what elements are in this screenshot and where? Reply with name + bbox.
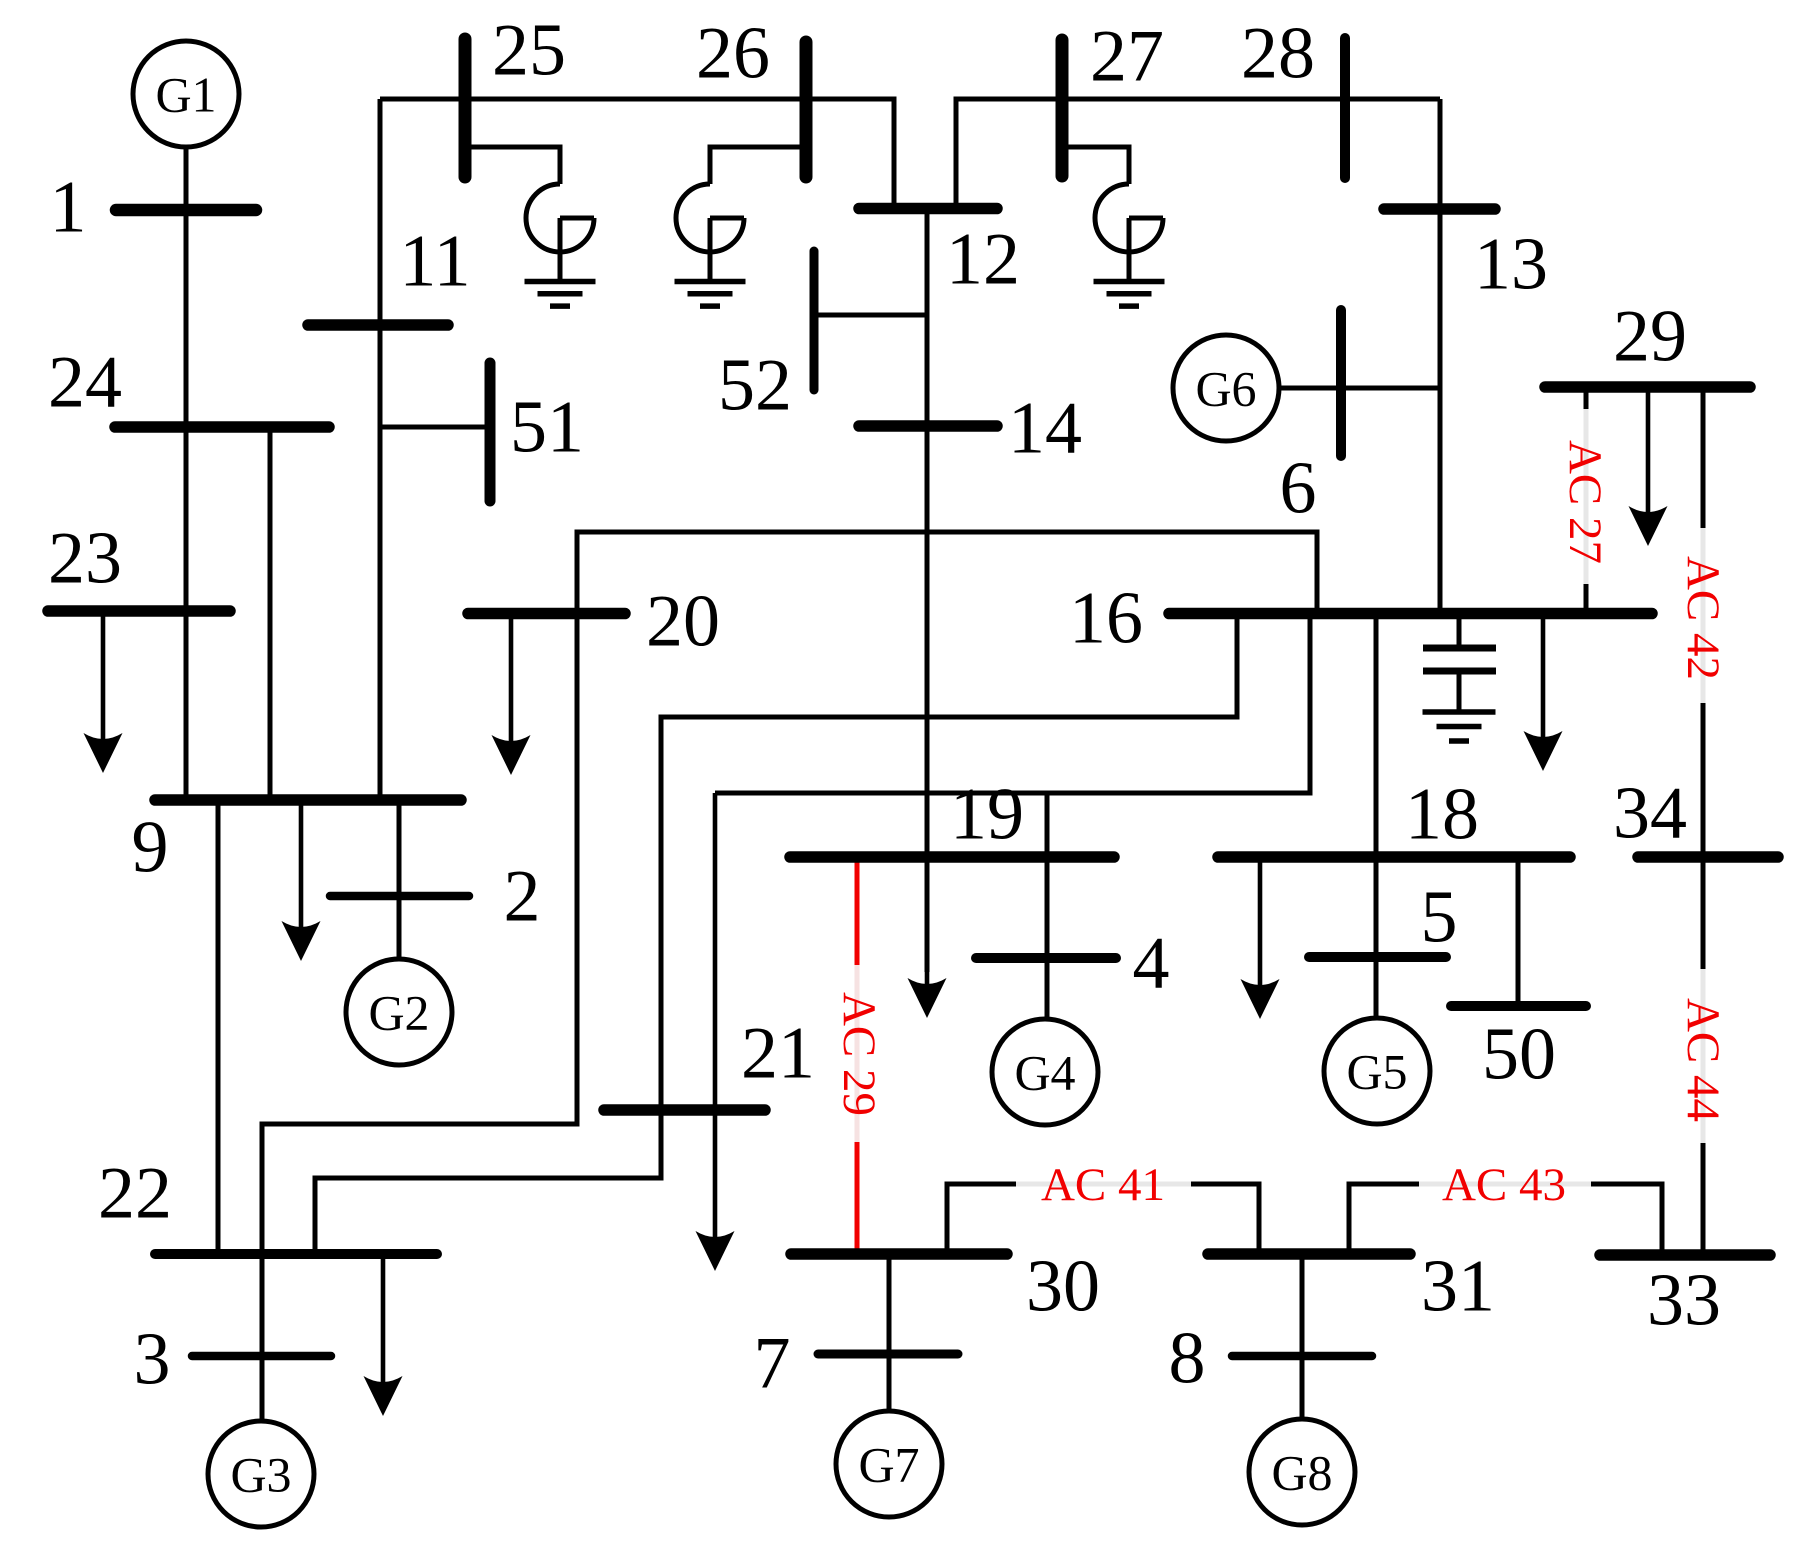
svg-text:18: 18: [1405, 774, 1479, 856]
bus 6 bar: [1336, 310, 1346, 456]
bus 25 bar: [459, 39, 472, 177]
bus 34 bar: [1638, 851, 1778, 863]
svg-text:24: 24: [48, 342, 122, 424]
generator G8: [1249, 1419, 1355, 1525]
svg-text:1: 1: [50, 167, 87, 249]
wire top run 27-28: [956, 99, 1440, 208]
svg-text:23: 23: [48, 518, 122, 600]
bus 14 bar: [859, 420, 997, 432]
ground of reactor L3: [1094, 279, 1165, 285]
svg-text:21: 21: [741, 1013, 815, 1095]
bus 51 bar: [485, 363, 496, 501]
generator G7: [836, 1411, 942, 1517]
load arrow bus 22: [381, 1254, 386, 1382]
bus 30 bar: [791, 1248, 1007, 1260]
wire bus 12 left entry: [892, 99, 897, 208]
reactor L3 at bus 27: [1095, 184, 1163, 252]
svg-text:51: 51: [510, 387, 584, 469]
bus 7 bar: [818, 1350, 958, 1359]
wire top run 25-26 to bus 12: [380, 99, 894, 208]
svg-text:19: 19: [950, 774, 1024, 856]
svg-text:33: 33: [1647, 1260, 1721, 1342]
generator G4: [992, 1019, 1098, 1125]
ground of reactor L1: [525, 279, 596, 285]
bus 18 bar: [1218, 851, 1570, 863]
svg-text:25: 25: [492, 10, 566, 92]
wire bus 30 to bus 7 to G7: [887, 1254, 892, 1411]
svg-text:9: 9: [132, 807, 169, 889]
wire bus 12 to bus 19 load: [925, 208, 930, 972]
bus 52 bar: [810, 251, 819, 390]
svg-text:52: 52: [718, 345, 792, 427]
load arrow bus 29: [1646, 391, 1651, 512]
svg-text:G7: G7: [858, 1436, 919, 1492]
wire bus 16 to bus 21 load run: [715, 614, 1310, 794]
reactor L1 at bus 25: [526, 184, 594, 252]
svg-text:AC 43: AC 43: [1442, 1159, 1566, 1211]
load arrow bus 21: [713, 793, 718, 1237]
reactor at bus 26 lead: [710, 147, 806, 184]
svg-text:G5: G5: [1346, 1043, 1407, 1099]
bus 3 bar: [192, 1352, 331, 1361]
bus 16 bar: [1169, 608, 1652, 620]
AC 41 link bus 30 to bus 31: [947, 1184, 1016, 1254]
bus 2 bar: [330, 892, 469, 901]
svg-text:AC 42: AC 42: [1677, 556, 1729, 680]
bus 4 bar: [976, 953, 1116, 963]
capacitor C1 at bus 16: [1457, 614, 1462, 649]
svg-text:50: 50: [1482, 1014, 1556, 1096]
generator G2: [346, 959, 452, 1065]
bus 22 bar: [155, 1249, 437, 1259]
svg-text:26: 26: [696, 13, 770, 95]
generator G3: [208, 1421, 314, 1527]
svg-text:27: 27: [1090, 16, 1164, 98]
bus 12 bar: [859, 203, 997, 215]
svg-text:G8: G8: [1271, 1444, 1332, 1500]
svg-text:G2: G2: [368, 984, 429, 1040]
AC 44 link bus 34 to bus 33: [1701, 857, 1706, 969]
wire G1 to bus 9 vertical: [184, 147, 189, 800]
load arrow bus 19: [925, 857, 930, 984]
load arrow bus 9: [299, 800, 304, 927]
wire bus 24 to bus 9: [268, 427, 273, 800]
wire bus 16 to bus 18 to G5: [1374, 614, 1379, 1019]
bus 9 bar: [155, 794, 461, 806]
bus 13 bar: [1384, 203, 1495, 215]
bus 19 bar: [790, 851, 1114, 863]
svg-text:AC 41: AC 41: [1041, 1159, 1165, 1211]
svg-text:14: 14: [1008, 388, 1082, 470]
wire bus 9 to bus 2 to G2: [397, 800, 402, 959]
wire bus 18 to bus 50: [1516, 857, 1521, 1006]
wire bus 16 to bus 21 to bus 22: [315, 614, 1237, 1255]
svg-text:G1: G1: [155, 66, 216, 122]
svg-text:11: 11: [399, 221, 470, 303]
bus 20 bar: [468, 608, 625, 620]
load arrow bus 16: [1541, 614, 1546, 738]
svg-text:4: 4: [1133, 923, 1170, 1005]
svg-text:31: 31: [1421, 1246, 1495, 1328]
reactor at bus 25 lead: [465, 147, 560, 184]
bus 50 bar: [1451, 1001, 1586, 1011]
svg-text:G6: G6: [1195, 360, 1256, 416]
AC 43 link bus 31 to bus 33: [1349, 1184, 1419, 1254]
generator G5: [1324, 1018, 1430, 1124]
wire bus 9 to bus 22: [216, 800, 221, 1254]
svg-text:G4: G4: [1014, 1044, 1075, 1100]
load arrow bus 23: [101, 611, 106, 739]
svg-text:AC 29: AC 29: [833, 992, 885, 1116]
svg-text:7: 7: [754, 1323, 791, 1405]
ground of reactor L2: [675, 279, 746, 285]
svg-text:3: 3: [134, 1319, 171, 1401]
load arrow bus 18: [1258, 857, 1263, 985]
svg-text:16: 16: [1069, 578, 1143, 660]
svg-text:AC 44: AC 44: [1677, 998, 1729, 1122]
bus 31 bar: [1208, 1248, 1410, 1260]
svg-text:34: 34: [1613, 773, 1687, 855]
bus 24 bar: [115, 421, 329, 433]
svg-text:30: 30: [1026, 1246, 1100, 1328]
svg-text:29: 29: [1613, 296, 1687, 378]
svg-text:20: 20: [646, 581, 720, 663]
svg-text:12: 12: [946, 219, 1020, 301]
svg-text:13: 13: [1474, 224, 1548, 306]
wire bus 19 to bus 4 to G4: [1045, 857, 1050, 1019]
bus 1 bar: [116, 204, 256, 217]
ground of capacitor C1: [1423, 709, 1496, 715]
svg-text:8: 8: [1169, 1318, 1206, 1400]
bus 33 bar: [1600, 1249, 1770, 1261]
bus 8 bar: [1232, 1352, 1372, 1361]
wire bus 11 riser: [378, 99, 383, 800]
wire G6 to bus 13 riser: [1279, 386, 1440, 391]
svg-text:22: 22: [98, 1153, 172, 1235]
bus 5 bar: [1309, 952, 1446, 962]
svg-text:6: 6: [1280, 448, 1317, 530]
wire bus 52 stub: [818, 313, 927, 318]
generator G1: [133, 41, 239, 147]
bus 23 bar: [48, 605, 230, 617]
svg-text:5: 5: [1421, 877, 1458, 959]
bus 28 bar: [1340, 38, 1350, 178]
AC 42 link bus 29 to bus 34: [1701, 391, 1706, 528]
bus 11 bar: [308, 319, 448, 331]
bus 29 bar: [1545, 381, 1750, 393]
wire bus 20 to bus 16 top run: [577, 532, 1317, 614]
wire bus 11 to bus 51: [380, 425, 486, 430]
AC 29 link bus 19 to bus 30: [855, 862, 860, 965]
svg-text:2: 2: [504, 856, 541, 938]
bus 26 bar: [800, 42, 813, 177]
bus 21 bar: [604, 1104, 765, 1116]
load arrow bus 20: [509, 614, 514, 742]
wire bus 28 corner to bus 16: [1438, 99, 1443, 614]
wire bus 20 to bus 22 to G3: [262, 614, 577, 1422]
svg-text:G3: G3: [230, 1446, 291, 1502]
svg-text:28: 28: [1241, 13, 1315, 95]
generator G6: [1173, 335, 1279, 441]
reactor L2 at bus 26: [676, 184, 744, 252]
wire bus 19 stub: [1045, 793, 1050, 857]
wire bus 31 to bus 8 to G8: [1300, 1254, 1305, 1419]
AC 27 link bus 29 to bus 16: [1584, 391, 1589, 409]
bus 27 bar: [1056, 40, 1069, 176]
svg-text:AC 27: AC 27: [1559, 440, 1611, 564]
reactor at bus 27 lead: [1062, 147, 1129, 184]
